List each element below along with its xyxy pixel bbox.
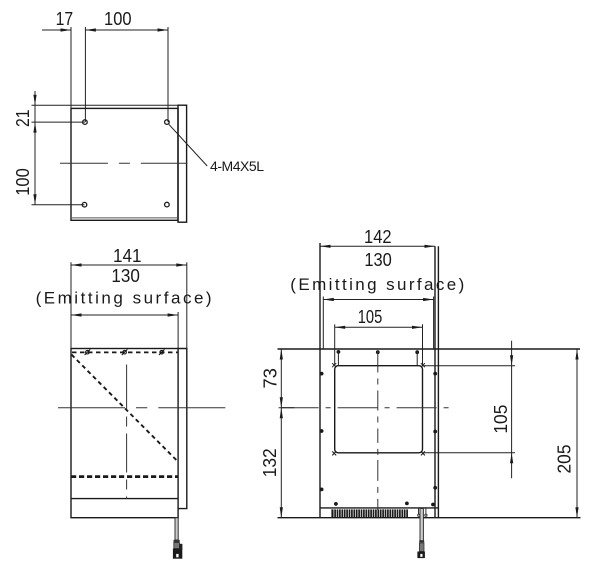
svg-text:100: 100 xyxy=(104,9,132,29)
svg-text:205: 205 xyxy=(555,445,575,474)
right edge outer xyxy=(437,246,439,517)
svg-text:21: 21 xyxy=(13,110,33,128)
connector body front xyxy=(417,552,425,559)
window corner mark TL xyxy=(332,363,336,367)
svg-text:17: 17 xyxy=(56,9,74,29)
hole top-left xyxy=(83,120,88,125)
svg-text:100: 100 xyxy=(13,168,33,196)
left edge xyxy=(319,243,321,518)
diffuser plate (right) xyxy=(178,349,187,509)
connector body xyxy=(173,549,182,559)
cable gland xyxy=(418,508,427,516)
dimension 142 xyxy=(320,245,435,247)
right column screw dots xyxy=(433,372,437,376)
hole top-right xyxy=(165,120,170,125)
svg-text:105: 105 xyxy=(358,307,383,327)
top row screw dots xyxy=(337,350,341,354)
connector hatch strip xyxy=(331,509,333,517)
cable sleeve xyxy=(174,543,180,549)
stub centerlines below top dots xyxy=(337,352,339,366)
body outline xyxy=(71,349,178,518)
dimension 21 and 100 (left of top view) xyxy=(32,91,179,205)
internal bottom line xyxy=(71,498,178,500)
window corner mark TR xyxy=(421,363,425,367)
window corner mark BR xyxy=(421,451,425,455)
hole bottom-right xyxy=(165,202,170,207)
cable band xyxy=(174,540,180,543)
horizontal centerline xyxy=(58,407,228,409)
diagonal hidden dashed line xyxy=(72,355,177,461)
connector notch front xyxy=(420,554,422,557)
vertical centerline xyxy=(377,352,379,511)
cable (front view) xyxy=(420,509,423,541)
vertical centerline xyxy=(126,365,128,499)
bottom thick dashed line xyxy=(71,475,178,478)
svg-text:142: 142 xyxy=(364,227,392,247)
svg-text:130: 130 xyxy=(364,250,392,270)
bottom row screw dots xyxy=(334,502,338,506)
dimension 105 right xyxy=(423,341,516,479)
window corner mark BL xyxy=(332,451,336,455)
inner bottom edge line xyxy=(71,217,177,219)
emitting window rounded rect xyxy=(335,366,423,453)
connector notch xyxy=(176,554,178,557)
svg-text:4-M4X5L: 4-M4X5L xyxy=(210,158,264,174)
dimension 73 / 132 (left of front view) xyxy=(280,349,282,518)
internal line above connector xyxy=(320,507,438,509)
svg-text:141: 141 xyxy=(113,246,142,266)
cable sleeve xyxy=(419,543,424,552)
dimension 105 top xyxy=(335,324,423,365)
top edge with extensions xyxy=(278,348,581,350)
diffuser plate edge (right side) xyxy=(178,105,187,222)
dimension 17 (top) xyxy=(42,27,168,122)
svg-text:130: 130 xyxy=(111,266,140,286)
hole bottom-left xyxy=(82,202,87,207)
horizontal centerline xyxy=(279,407,454,409)
centerline horizontal xyxy=(60,162,187,164)
connector tab xyxy=(179,544,182,550)
bottom edge with extensions xyxy=(278,517,581,519)
leader line 4-M4X5L xyxy=(169,124,207,166)
dimension 141 (side view) xyxy=(71,262,187,348)
cable band xyxy=(419,540,424,542)
svg-text:105: 105 xyxy=(491,405,511,434)
left column screw dots xyxy=(320,372,324,376)
screw mark 2 xyxy=(122,349,128,355)
dimension 130 front xyxy=(323,297,433,350)
screw mark 1 xyxy=(85,349,91,355)
body outline xyxy=(71,108,178,220)
hidden dashed line top (screws) xyxy=(72,351,178,353)
cable (side view) xyxy=(175,518,178,540)
screw mark 3 xyxy=(159,349,165,355)
svg-text:132: 132 xyxy=(260,448,280,477)
right edge inner xyxy=(434,246,436,517)
dimension 130 (side view) xyxy=(71,312,178,349)
svg-text:73: 73 xyxy=(261,368,281,388)
dimension 205 xyxy=(576,349,578,518)
